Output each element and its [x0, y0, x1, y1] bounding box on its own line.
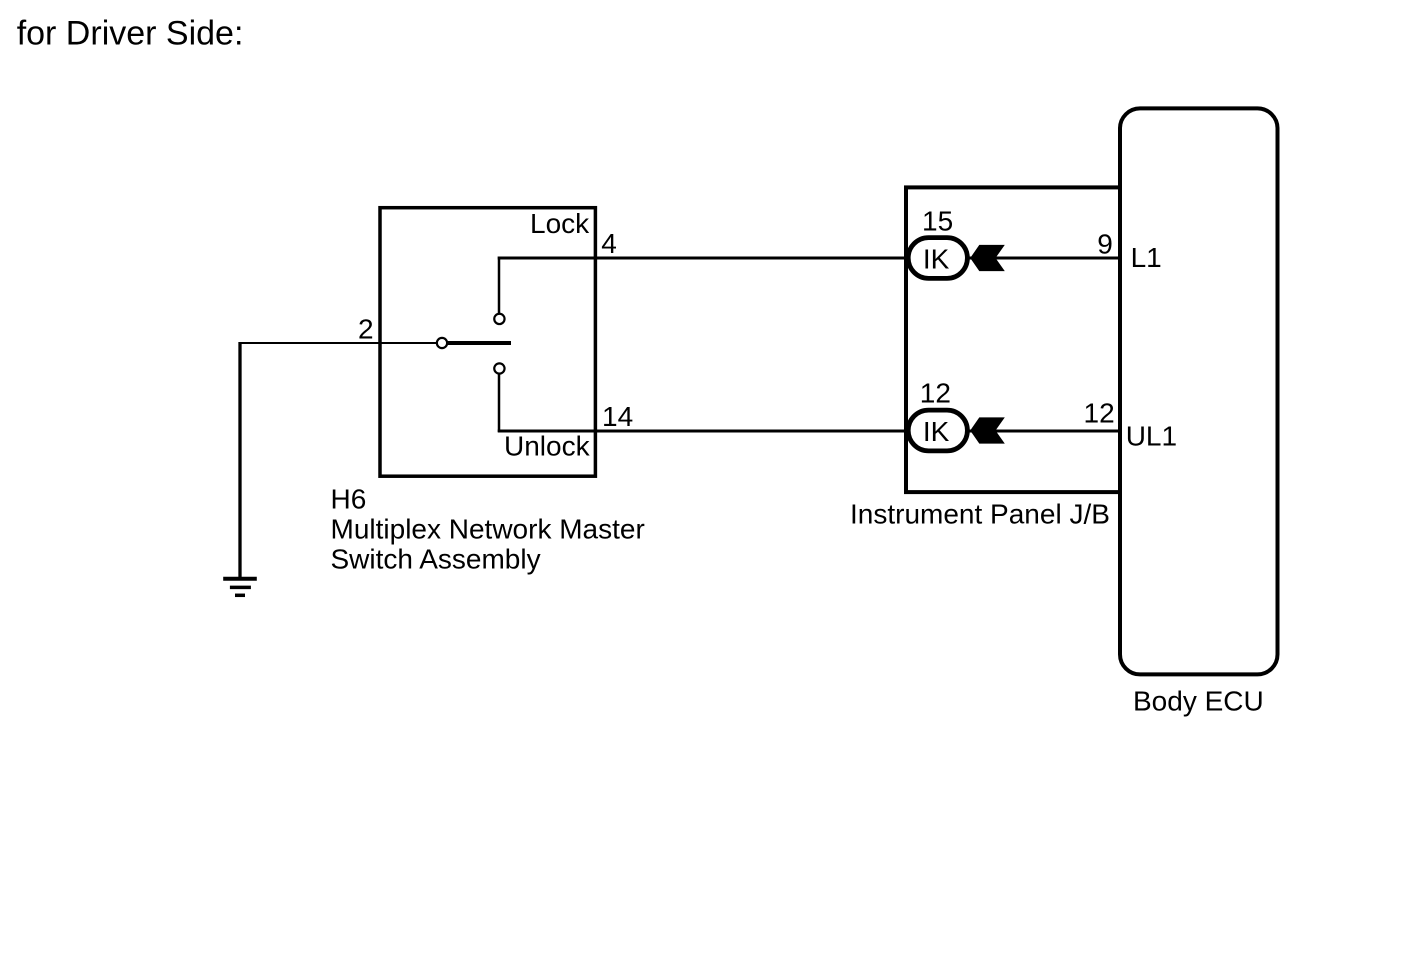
- svg-text:for Driver Side:: for Driver Side:: [17, 14, 244, 52]
- connector IK oval (bottom): [908, 410, 967, 451]
- svg-text:2: 2: [358, 314, 374, 345]
- svg-text:14: 14: [602, 401, 633, 432]
- wire switch upper contact vertical: [498, 257, 501, 314]
- svg-text:Instrument Panel J/B: Instrument Panel J/B: [850, 499, 1110, 530]
- svg-text:Lock: Lock: [530, 208, 590, 239]
- svg-text:IK: IK: [923, 244, 950, 275]
- wire lock: pin4 to IK (top): [498, 257, 1120, 260]
- svg-text:12: 12: [1084, 397, 1115, 428]
- svg-text:L1: L1: [1131, 242, 1162, 273]
- arrow (bottom wire, pointing left): [970, 417, 1005, 443]
- switch common contact circle: [437, 338, 447, 348]
- wire pin2 horizontal (switch common to left corner): [239, 342, 436, 344]
- wire pin2 vertical down to ground: [238, 342, 241, 579]
- svg-text:Multiplex Network Master: Multiplex Network Master: [331, 514, 645, 545]
- svg-text:Switch Assembly: Switch Assembly: [331, 544, 541, 575]
- switch lever (common pole): [447, 341, 511, 345]
- switch unlock contact circle: [494, 363, 504, 373]
- Instrument Panel J/B box: [906, 187, 1120, 492]
- svg-text:9: 9: [1097, 229, 1113, 260]
- switch H6 box: [380, 208, 595, 477]
- connector IK oval (top): [908, 238, 967, 279]
- svg-text:Unlock: Unlock: [504, 431, 591, 462]
- switch lock contact circle: [494, 314, 504, 324]
- wire switch lower contact vertical: [498, 374, 501, 432]
- svg-text:UL1: UL1: [1126, 420, 1177, 451]
- wire unlock: pin14 to IK (bottom): [498, 430, 1120, 433]
- svg-text:4: 4: [601, 228, 617, 259]
- svg-text:12: 12: [920, 378, 951, 409]
- svg-text:15: 15: [922, 206, 953, 237]
- svg-text:Body ECU: Body ECU: [1133, 686, 1264, 717]
- svg-text:IK: IK: [923, 416, 950, 447]
- svg-text:H6: H6: [331, 483, 367, 514]
- ground symbol: [223, 579, 257, 596]
- arrow (top wire, pointing left): [970, 245, 1005, 271]
- Body ECU box: [1120, 108, 1278, 674]
